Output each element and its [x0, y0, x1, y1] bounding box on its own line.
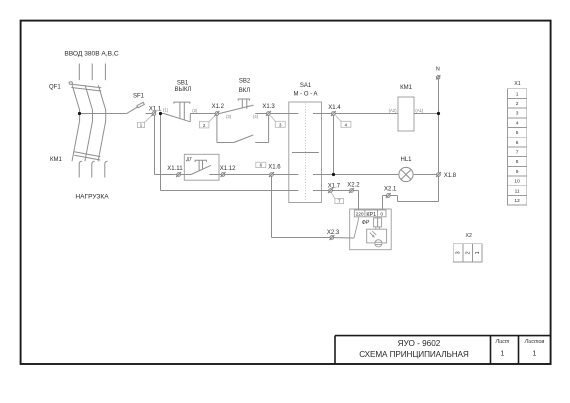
svg-text:ДТ: ДТ — [186, 157, 192, 162]
svg-text:SA1: SA1 — [300, 83, 312, 89]
svg-text:X1.6: X1.6 — [268, 165, 281, 171]
svg-text:КР1: КР1 — [366, 212, 376, 218]
svg-text:ВВОД 380В А,В,С: ВВОД 380В А,В,С — [64, 50, 119, 57]
svg-text:ЯУО - 9602: ЯУО - 9602 — [398, 339, 441, 348]
svg-text:ФР: ФР — [362, 220, 370, 226]
svg-text:КМ1: КМ1 — [50, 157, 62, 163]
svg-text:(А2): (А2) — [389, 108, 398, 113]
svg-text:6: 6 — [516, 140, 519, 146]
svg-text:Лист: Лист — [495, 339, 510, 345]
svg-text:X2: X2 — [466, 233, 472, 239]
svg-text:X1.12: X1.12 — [220, 166, 236, 172]
svg-text:SB2: SB2 — [239, 78, 251, 84]
svg-text:Листов: Листов — [524, 339, 545, 345]
svg-text:X1.8: X1.8 — [444, 173, 457, 179]
svg-text:X2.2: X2.2 — [347, 183, 360, 189]
svg-text:(4): (4) — [253, 114, 259, 119]
svg-text:ВЫКЛ: ВЫКЛ — [175, 87, 192, 93]
svg-text:0: 0 — [380, 212, 383, 218]
svg-text:9: 9 — [516, 169, 519, 175]
svg-text:10: 10 — [514, 179, 520, 185]
svg-text:(2): (2) — [192, 108, 198, 113]
svg-text:2: 2 — [516, 101, 519, 107]
svg-text:1: 1 — [475, 251, 481, 254]
svg-text:X1.4: X1.4 — [328, 105, 341, 111]
svg-text:12: 12 — [514, 198, 520, 204]
svg-text:(1): (1) — [163, 108, 169, 113]
svg-text:SB1: SB1 — [177, 80, 189, 86]
svg-text:5: 5 — [516, 130, 519, 136]
svg-text:M - O - A: M - O - A — [294, 92, 318, 98]
svg-text:SF1: SF1 — [133, 94, 145, 100]
svg-text:1: 1 — [516, 91, 519, 97]
svg-text:8: 8 — [516, 159, 519, 165]
svg-text:X2.3: X2.3 — [327, 230, 340, 236]
svg-text:(А1): (А1) — [415, 108, 424, 113]
svg-text:3: 3 — [456, 251, 462, 254]
svg-text:N: N — [436, 66, 440, 72]
svg-text:HL1: HL1 — [400, 157, 412, 163]
svg-text:X1.3: X1.3 — [262, 104, 275, 110]
svg-text:(3): (3) — [226, 114, 232, 119]
svg-text:НАГРУЗКА: НАГРУЗКА — [75, 194, 109, 201]
svg-text:7: 7 — [516, 150, 519, 156]
svg-text:ВКЛ: ВКЛ — [239, 88, 250, 94]
svg-text:X1: X1 — [514, 81, 520, 87]
svg-text:X1.11: X1.11 — [167, 166, 183, 172]
svg-text:КМ1: КМ1 — [400, 85, 412, 91]
svg-text:220: 220 — [356, 212, 364, 218]
svg-text:3: 3 — [516, 111, 519, 117]
svg-text:X1.2: X1.2 — [212, 104, 225, 110]
svg-text:1: 1 — [501, 351, 505, 358]
svg-text:4: 4 — [516, 120, 519, 126]
svg-text:1: 1 — [533, 351, 537, 358]
svg-text:11: 11 — [515, 188, 520, 194]
svg-text:2: 2 — [465, 251, 471, 254]
svg-text:X2.1: X2.1 — [384, 187, 397, 193]
svg-text:QF1: QF1 — [49, 84, 61, 90]
svg-text:СХЕМА ПРИНЦИПИАЛЬНАЯ: СХЕМА ПРИНЦИПИАЛЬНАЯ — [359, 350, 469, 359]
